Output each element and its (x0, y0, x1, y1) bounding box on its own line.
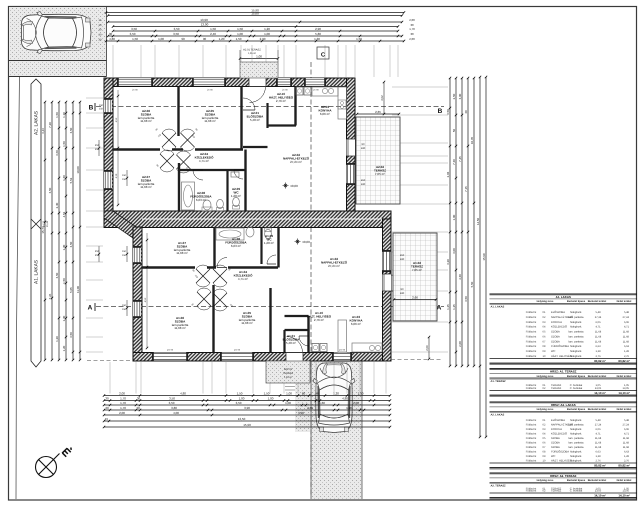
svg-text:4,38: 4,38 (115, 173, 118, 178)
svg-text:SZOBA: SZOBA (551, 340, 560, 343)
svg-text:1,50: 1,50 (55, 112, 59, 118)
top chain openings (106, 40, 404, 42)
svg-text:3,50: 3,50 (174, 27, 180, 31)
svg-text:15,45: 15,45 (46, 220, 49, 227)
entry steps A1 (285, 386, 310, 388)
bathtub A2 (182, 182, 195, 210)
A2 wall bathroom-wc (226, 170, 228, 211)
svg-text:6,63 m²: 6,63 m² (231, 244, 241, 248)
svg-text:5,48: 5,48 (624, 419, 630, 422)
door swing cross A1 to szoba07 (196, 265, 210, 287)
svg-text:3,43: 3,43 (41, 128, 45, 134)
svg-text:150: 150 (122, 254, 127, 257)
svg-text:3,20: 3,20 (446, 259, 450, 265)
bottom chain row1 (104, 395, 390, 397)
svg-text:3,50: 3,50 (69, 241, 73, 247)
washbasin A2 (203, 200, 211, 210)
svg-text:4,30: 4,30 (458, 274, 462, 280)
svg-text:A: A (88, 305, 93, 312)
table A1. LAKAS room schedule (490, 293, 638, 295)
svg-text:hidegburk.: hidegburk. (570, 355, 582, 358)
svg-text:1,20: 1,20 (55, 336, 59, 342)
A2 wall szoba07 right (178, 163, 180, 211)
svg-text:hidegburk.: hidegburk. (570, 326, 582, 329)
door swing cross A1 corridor (213, 265, 227, 287)
svg-text:1,05 m²: 1,05 m² (284, 376, 292, 379)
svg-text:A01.01: A01.01 (284, 368, 293, 371)
svg-text:2,00: 2,00 (409, 37, 415, 41)
svg-text:15,98: 15,98 (482, 253, 486, 261)
interior mini chain A2 left (117, 90, 119, 205)
svg-text:2,60: 2,60 (307, 406, 313, 410)
svg-text:1,00: 1,00 (237, 32, 243, 36)
door arc A2 wc (234, 170, 243, 179)
svg-text:11,68 m²: 11,68 m² (140, 119, 152, 123)
svg-text:A1. LAKAS: A1. LAKAS (491, 305, 505, 308)
svg-text:2,76 m²: 2,76 m² (314, 318, 324, 322)
svg-text:15,73: 15,73 (41, 226, 45, 234)
svg-text:1,00: 1,00 (239, 397, 245, 401)
svg-text:1,50: 1,50 (356, 37, 362, 41)
svg-text:A1. TERASZ: A1. TERASZ (491, 380, 507, 383)
door arc A2 bathroom (193, 170, 203, 180)
svg-text:KONYHA: KONYHA (551, 428, 562, 431)
svg-text:240: 240 (361, 183, 366, 186)
svg-text:11,68: 11,68 (623, 441, 630, 444)
svg-text:4,71: 4,71 (624, 432, 630, 435)
svg-text:30: 30 (410, 32, 414, 36)
svg-text:90: 90 (181, 37, 185, 41)
door swing cross A2 to szoba07 (160, 150, 174, 172)
svg-text:4,52: 4,52 (115, 117, 118, 122)
svg-text:1,20: 1,20 (346, 406, 352, 410)
svg-text:ELŐSZOBA: ELŐSZOBA (551, 310, 565, 314)
svg-text:6,06: 6,06 (595, 321, 601, 324)
svg-text:13,50: 13,50 (238, 417, 246, 421)
svg-text:lam. parketta: lam. parketta (569, 340, 585, 343)
svg-text:hidegburk.: hidegburk. (570, 321, 582, 324)
svg-text:Burkolat terület: Burkolat terület (588, 479, 607, 482)
right chain 1 (449, 78, 451, 366)
A2 wall eloszoba bottom (243, 146, 268, 148)
left dimension chain 1 (44, 102, 46, 360)
street edge line lower (9, 76, 107, 78)
window A1.06 (left wall) (133, 300, 141, 318)
section line A-A (dashed) (96, 306, 444, 308)
svg-text:1,70: 1,70 (120, 397, 126, 401)
top chain total 15,60 (108, 15, 402, 17)
svg-text:Földszint: Földszint (526, 423, 537, 426)
svg-text:C: C (321, 52, 326, 59)
svg-text:Földszint: Földszint (526, 316, 537, 319)
svg-text:1,50: 1,50 (132, 37, 138, 41)
terrace A1.02 dim 2,66 (394, 299, 436, 301)
svg-text:240: 240 (400, 258, 405, 261)
svg-text:1,50: 1,50 (237, 27, 243, 31)
svg-text:2,00: 2,00 (409, 18, 415, 22)
svg-text:2,00: 2,00 (119, 392, 125, 396)
svg-text:WC: WC (551, 350, 555, 353)
svg-text:Helyiség neve: Helyiség neve (537, 408, 554, 411)
svg-text:Nettó terület: Nettó terület (617, 479, 632, 482)
door arc A2 eloszoba (243, 98, 255, 110)
svg-text:3,50: 3,50 (69, 127, 73, 133)
A2 wall wc right (244, 150, 246, 212)
svg-text:3,50: 3,50 (464, 296, 468, 302)
door arc A1 bathroom (217, 258, 227, 268)
svg-text:Földszint: Földszint (526, 331, 537, 334)
driveway edge right (361, 361, 363, 499)
svg-text:7,20: 7,20 (48, 122, 52, 128)
svg-text:1,28: 1,28 (595, 350, 601, 353)
level mark A1 ±0,00 (295, 239, 301, 245)
svg-text:1,30: 1,30 (62, 175, 66, 181)
right chain 7 (485, 77, 487, 437)
svg-text:2,65: 2,65 (375, 110, 381, 114)
A1 wall szoba06-05 (212, 285, 214, 353)
window A1.07 (left wall) (133, 246, 141, 264)
svg-text:5,52: 5,52 (69, 177, 73, 183)
svg-text:1,28: 1,28 (595, 455, 601, 458)
extension lines left (86, 97, 103, 99)
svg-text:5,80: 5,80 (315, 32, 321, 36)
dashed line right of entry (391, 359, 441, 361)
svg-text:Burkolat terület: Burkolat terület (588, 408, 607, 411)
terrace A1.02 (tiled) (393, 233, 437, 321)
svg-text:lam. parketta: lam. parketta (569, 335, 585, 338)
bottom chain row4 (104, 409, 390, 411)
svg-text:jm 90: jm 90 (206, 89, 213, 92)
svg-text:pm 90: pm 90 (167, 349, 174, 352)
svg-text:jm 90: jm 90 (312, 89, 319, 92)
svg-text:lam. parketta: lam. parketta (569, 331, 585, 334)
porch A2.01 terasz (stippled) (240, 62, 278, 78)
svg-text:Földszint: Földszint (526, 450, 537, 453)
svg-text:13,90: 13,90 (200, 18, 208, 22)
bottom chain 13,50 (104, 420, 390, 422)
svg-text:80,82 m²: 80,82 m² (594, 359, 606, 363)
svg-text:TERASZ: TERASZ (551, 489, 562, 492)
svg-text:hidegburk.: hidegburk. (570, 459, 582, 462)
svg-text:6,63: 6,63 (624, 345, 630, 348)
svg-text:6,63 m²: 6,63 m² (196, 198, 206, 202)
svg-text:1,50: 1,50 (62, 141, 66, 147)
driveway stipple band (311, 361, 362, 499)
A2 wall bathroom top (179, 169, 246, 171)
door swing cross A2 to szoba05 (181, 129, 195, 151)
svg-text:2,76: 2,76 (624, 459, 630, 462)
appliances A1 hazt (312, 344, 319, 352)
svg-text:210: 210 (361, 179, 366, 182)
section line B-B (dashed) (96, 106, 444, 108)
door swing cross A1 to szoba06 (197, 288, 211, 310)
A1 wall konyha left (330, 310, 332, 353)
svg-text:90: 90 (203, 37, 207, 41)
svg-text:210: 210 (400, 254, 405, 257)
svg-text:6,06: 6,06 (595, 428, 601, 431)
svg-text:1,10: 1,10 (62, 112, 66, 118)
porch dim 1,00 (240, 58, 278, 60)
party wall band (104, 211, 391, 228)
svg-text:6,63: 6,63 (595, 450, 601, 453)
svg-text:4,52: 4,52 (62, 211, 66, 217)
svg-text:1,00: 1,00 (158, 37, 164, 41)
svg-text:4,71: 4,71 (624, 326, 630, 329)
svg-text:7,05 m²: 7,05 m² (375, 172, 385, 176)
table A2. LAKAS room schedule (490, 401, 638, 403)
A1 wall szoba07 right (213, 227, 215, 268)
svg-text:C. burkolat: C. burkolat (570, 387, 583, 390)
window A2.10 (top wall) (276, 78, 292, 86)
svg-text:Nettó terület: Nettó terület (617, 300, 632, 303)
svg-text:4,80: 4,80 (342, 397, 348, 401)
svg-text:Földszint: Földszint (526, 419, 537, 422)
A1 left exterior wall (133, 227, 142, 361)
A2 wall rooms/corridor horizontal (113, 148, 243, 150)
svg-text:2,03: 2,03 (446, 171, 450, 177)
door swing cross A1 to szoba05 (213, 289, 227, 311)
door A1 to terrace (right wall opening) (383, 274, 392, 291)
plot boundary line (16, 77, 20, 499)
bottom chain row3 (104, 404, 390, 406)
svg-text:10,00: 10,00 (76, 166, 80, 174)
svg-text:2,00: 2,00 (353, 401, 359, 405)
svg-text:80,82 m²: 80,82 m² (618, 463, 630, 467)
svg-text:Helyiség neve: Helyiség neve (537, 479, 554, 482)
window A1.05 (bottom wall) (220, 353, 254, 361)
left dimension chain 3 (58, 102, 60, 360)
svg-text:1,50: 1,50 (358, 392, 364, 396)
svg-text:Nettó terület: Nettó terület (617, 375, 632, 378)
svg-text:4,80: 4,80 (180, 392, 186, 396)
svg-text:Burkolat terület: Burkolat terület (588, 300, 607, 303)
svg-text:1,28 m²: 1,28 m² (264, 241, 274, 245)
bottom chain 15,90 (104, 426, 390, 428)
svg-text:30: 30 (109, 32, 113, 36)
svg-text:2,66: 2,66 (412, 296, 418, 300)
svg-text:11,68: 11,68 (623, 331, 630, 334)
svg-text:HRSZ: A2. LAKAS: HRSZ: A2. LAKAS (551, 403, 576, 407)
bottom chain row2 (104, 400, 390, 402)
svg-text:lam. parketta: lam. parketta (569, 437, 585, 440)
svg-text:lam. parketta: lam. parketta (569, 441, 585, 444)
svg-text:B: B (89, 105, 94, 112)
section line C-C (vertical dashed) (310, 62, 312, 497)
extension lines bottom (109, 362, 111, 394)
door swing cross A2 to szoba06 (162, 129, 176, 151)
svg-text:11,68: 11,68 (623, 340, 630, 343)
svg-text:10,35: 10,35 (470, 136, 474, 144)
left dimension chain 4 (65, 102, 67, 360)
svg-text:SZOBA: SZOBA (551, 446, 560, 449)
svg-text:3,50: 3,50 (69, 332, 73, 338)
svg-text:1,00: 1,00 (285, 401, 291, 405)
north compass (36, 457, 57, 478)
svg-text:30: 30 (136, 406, 140, 410)
svg-text:Burkolat típusa: Burkolat típusa (567, 300, 586, 303)
wc A2 (bathroom) (217, 199, 224, 208)
svg-text:TERASZ: TERASZ (283, 372, 294, 375)
window A2.06 (left wall) (104, 98, 112, 114)
svg-text:150: 150 (122, 250, 127, 253)
svg-text:3,50: 3,50 (236, 401, 242, 405)
svg-text:3,90: 3,90 (244, 406, 250, 410)
dim 2,00 right of entry (428, 337, 430, 359)
window A1.02 nappali (right wall) (383, 250, 391, 272)
svg-text:7,45: 7,45 (458, 156, 462, 162)
svg-text:13,05: 13,05 (595, 489, 602, 492)
svg-text:3,80: 3,80 (171, 406, 177, 410)
kitchen hob A2 (338, 100, 346, 109)
svg-text:hidegburk.: hidegburk. (570, 450, 582, 453)
svg-text:5,48: 5,48 (595, 311, 601, 314)
svg-text:11,68 m²: 11,68 m² (176, 251, 188, 255)
door arc A1 terrace (391, 275, 407, 291)
svg-text:11,00: 11,00 (76, 286, 80, 293)
svg-text:1,20: 1,20 (219, 37, 225, 41)
svg-text:1,28: 1,28 (624, 455, 630, 458)
A1 wall hazt top (285, 315, 309, 317)
window A2.05 (top wall) (192, 78, 226, 86)
svg-text:3,60: 3,60 (55, 150, 59, 156)
svg-text:2,40: 2,40 (210, 32, 216, 36)
svg-text:11,68 m²: 11,68 m² (241, 321, 253, 325)
bathtub A1 (216, 228, 244, 240)
A1 right exterior wall (383, 219, 392, 361)
svg-text:1,20: 1,20 (264, 27, 270, 31)
svg-text:HÁZT. HELYISÉG: HÁZT. HELYISÉG (551, 458, 572, 462)
svg-text:6,63: 6,63 (595, 345, 601, 348)
street right boundary (106, 7, 108, 77)
svg-text:1,50: 1,50 (237, 392, 243, 396)
svg-text:A1. LAKAS: A1. LAKAS (34, 260, 40, 284)
svg-text:11,68 m²: 11,68 m² (204, 119, 216, 123)
svg-text:30: 30 (464, 110, 468, 114)
svg-text:3,50: 3,50 (446, 109, 450, 115)
svg-text:13,05: 13,05 (623, 387, 630, 390)
dim 3,02 above terrace (383, 82, 385, 114)
svg-text:4,52: 4,52 (144, 297, 147, 302)
svg-text:15,60: 15,60 (251, 12, 259, 16)
svg-text:hidegburk.: hidegburk. (570, 428, 582, 431)
svg-text:13,05: 13,05 (595, 387, 602, 390)
svg-text:3,50: 3,50 (173, 32, 179, 36)
svg-text:1,00: 1,00 (264, 32, 270, 36)
A1 wall hazt right (307, 316, 309, 353)
svg-text:27,24 m²: 27,24 m² (290, 160, 302, 164)
svg-text:hidegburk.: hidegburk. (570, 455, 582, 458)
svg-text:1,05 m²: 1,05 m² (248, 52, 256, 55)
svg-text:80,82 m²: 80,82 m² (594, 463, 606, 467)
svg-text:30: 30 (137, 397, 141, 401)
svg-text:1,25: 1,25 (452, 304, 456, 310)
svg-text:B: B (438, 108, 443, 115)
kitchen sink A1 (369, 345, 374, 350)
svg-text:HRSZ: A1. TERASZ: HRSZ: A1. TERASZ (550, 370, 577, 374)
svg-text:11,68: 11,68 (623, 335, 630, 338)
svg-text:Földszint: Földszint (526, 345, 537, 348)
svg-text:Földszint: Földszint (526, 432, 537, 435)
appliances A2 hazt (296, 87, 303, 95)
top chain 13,00 (113, 26, 398, 28)
party wall seam (142, 218, 382, 220)
svg-text:1,70: 1,70 (120, 406, 126, 410)
svg-text:hidegburk.: hidegburk. (570, 350, 582, 353)
extension lines top (112, 45, 114, 77)
svg-text:Földszint: Földszint (526, 340, 537, 343)
svg-text:KONYHA: KONYHA (551, 321, 562, 324)
svg-text:1,25: 1,25 (446, 304, 450, 310)
right chain 3 (461, 78, 463, 366)
svg-text:5,48 m²: 5,48 m² (250, 118, 260, 122)
table A2. TERASZ schedule (490, 472, 638, 474)
svg-text:7,05 m²: 7,05 m² (412, 268, 422, 272)
svg-text:Burkolat típusa: Burkolat típusa (567, 375, 586, 378)
svg-text:Földszint: Földszint (526, 437, 537, 440)
svg-text:Földszint: Földszint (526, 441, 537, 444)
entry door opening A1 (286, 353, 303, 362)
svg-text:2,90: 2,90 (260, 37, 266, 41)
svg-text:6,06 m²: 6,06 m² (320, 112, 330, 116)
left dimension chain 2 (51, 102, 53, 360)
svg-text:Földszint: Földszint (526, 335, 537, 338)
svg-text:9,90: 9,90 (298, 411, 304, 415)
svg-text:2,30: 2,30 (55, 202, 59, 208)
entry door arc A1 (287, 337, 303, 353)
svg-text:60: 60 (302, 392, 306, 396)
svg-text:7,26: 7,26 (48, 293, 52, 299)
svg-text:SZOBA: SZOBA (551, 331, 560, 334)
section marker C top (317, 47, 329, 59)
svg-text:14,10 m²: 14,10 m² (594, 493, 606, 497)
svg-text:pm 90: pm 90 (339, 349, 346, 352)
A1 wall eloszoba left (283, 330, 285, 353)
A2 wall eloszoba right (266, 103, 268, 128)
car on driveway (top view) (313, 363, 355, 433)
svg-text:150: 150 (122, 308, 127, 311)
svg-text:1,50: 1,50 (210, 27, 216, 31)
parking / street stippled area (9, 7, 107, 77)
svg-text:1,30: 1,30 (314, 37, 320, 41)
wc A1.09 (265, 229, 272, 238)
svg-text:TERASZ: TERASZ (551, 387, 562, 390)
svg-text:2,00: 2,00 (119, 411, 125, 415)
svg-text:80,82 m²: 80,82 m² (618, 359, 630, 363)
svg-text:3,00: 3,00 (452, 248, 456, 254)
svg-text:5,48 m²: 5,48 m² (286, 341, 296, 345)
svg-text:hidegburk.: hidegburk. (570, 345, 582, 348)
svg-text:27,24 m²: 27,24 m² (328, 264, 340, 268)
svg-text:1,28 m²: 1,28 m² (231, 194, 241, 198)
svg-text:6,63: 6,63 (624, 450, 630, 453)
svg-text:11,68: 11,68 (595, 437, 602, 440)
svg-text:1,30: 1,30 (62, 244, 66, 250)
svg-text:KÖZLEKEDŐ: KÖZLEKEDŐ (551, 431, 567, 435)
svg-text:11,68: 11,68 (623, 446, 630, 449)
svg-text:Nettó terület: Nettó terület (617, 408, 632, 411)
svg-text:15,90: 15,90 (243, 423, 251, 427)
svg-text:hidegburk.: hidegburk. (570, 419, 582, 422)
entry door opening A2 (249, 78, 266, 87)
svg-text:11,68: 11,68 (595, 335, 602, 338)
svg-text:5,05: 5,05 (69, 287, 73, 293)
A2 wall between szoba 06 and 05 (177, 87, 179, 137)
svg-text:11,68: 11,68 (595, 441, 602, 444)
A2 wall hazt right (294, 87, 296, 126)
window A1.03 kitchen (bottom wall) (332, 353, 352, 361)
door A2 to terrace (right wall opening) (347, 139, 356, 156)
svg-text:1,60: 1,60 (319, 401, 325, 405)
